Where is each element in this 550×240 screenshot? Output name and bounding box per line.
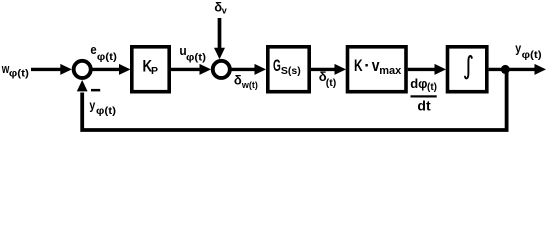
minus sign at junction 1 xyxy=(91,89,100,92)
svg-text:φ(t): φ(t) xyxy=(97,52,117,63)
svg-text:K: K xyxy=(354,57,363,76)
svg-text:φ(t): φ(t) xyxy=(186,52,206,63)
block K vmax xyxy=(348,47,407,92)
svg-text:dt: dt xyxy=(417,97,431,113)
label dphi(t)/dt fraction xyxy=(410,76,437,114)
svg-text:φ(t): φ(t) xyxy=(522,50,542,61)
wire delta_v down into summing junction 2 xyxy=(214,18,225,59)
wire integrator to output y_phi(t) xyxy=(489,64,546,75)
wire block GS to block K vmax xyxy=(311,64,346,75)
svg-text:φ(t): φ(t) xyxy=(96,106,116,117)
svg-text:P: P xyxy=(151,65,158,77)
label delta_(t) xyxy=(319,69,337,89)
svg-text:G: G xyxy=(273,55,281,74)
block KP xyxy=(132,47,169,92)
wire block K vmax to integrator xyxy=(408,64,446,75)
svg-text:S(s): S(s) xyxy=(281,65,301,77)
wire junction 2 to block GS xyxy=(230,64,266,75)
svg-text:y: y xyxy=(89,97,95,112)
svg-text:(t): (t) xyxy=(427,82,437,93)
svg-text:(t): (t) xyxy=(326,77,337,89)
svg-text:v: v xyxy=(222,6,227,16)
block GS(s) xyxy=(268,47,309,92)
label delta_v disturbance xyxy=(214,0,227,16)
svg-text:·: · xyxy=(364,56,370,75)
svg-text:dφ: dφ xyxy=(410,76,427,91)
label y_phi(t) feedback xyxy=(89,97,116,117)
svg-text:y: y xyxy=(515,41,521,56)
node branch point on output wire xyxy=(501,65,510,74)
label delta_w(t) xyxy=(234,73,258,91)
wire block KP to summing junction 2 xyxy=(171,64,211,75)
svg-text:δ: δ xyxy=(234,73,242,88)
label w_phi(t) input xyxy=(1,63,29,80)
svg-text:φ(t): φ(t) xyxy=(9,68,29,79)
label y_phi(t) output xyxy=(515,41,542,61)
block integrator xyxy=(448,47,487,92)
wire feedback from node down, left and up to junction 1 xyxy=(77,69,507,130)
label e_phi(t) xyxy=(90,42,117,62)
wire input to summing junction 1 xyxy=(31,64,72,75)
svg-text:w(t): w(t) xyxy=(241,80,258,90)
svg-text:max: max xyxy=(379,65,402,77)
summing junction 2 xyxy=(213,61,230,78)
label u_phi(t) xyxy=(179,44,206,64)
wire junction 1 to block KP xyxy=(91,64,131,75)
summing junction 1 xyxy=(74,61,91,78)
